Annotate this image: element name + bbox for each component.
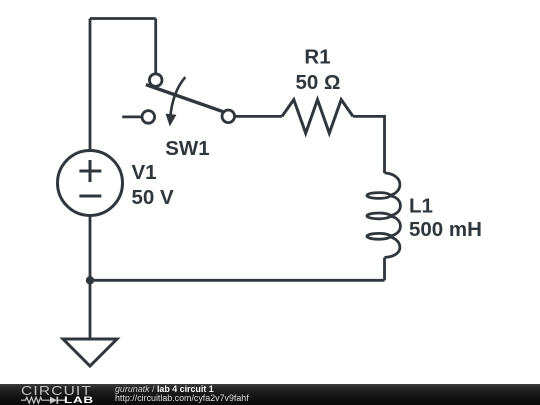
- wire resistor to right corner: [353, 116, 385, 173]
- CircuitLab logo wordmark CIRCUIT: [21, 383, 92, 398]
- wire V1 bottom to junction: [89, 216, 92, 281]
- switch open throw circle: [142, 111, 155, 124]
- wire inductor bottom to bottom rail: [383, 258, 386, 281]
- switch toggle arc: [170, 77, 185, 117]
- footer bar: [0, 384, 540, 405]
- wire switch feed vertical: [154, 19, 157, 74]
- voltage source V1: [58, 151, 123, 216]
- svg-text:SW1: SW1: [165, 137, 209, 160]
- switch open throw stub: [122, 116, 142, 119]
- svg-text:V1: V1: [132, 161, 157, 184]
- switch blade: [146, 85, 226, 113]
- inductor L1: [367, 173, 401, 258]
- ground: [63, 339, 117, 366]
- footer url line: [115, 394, 249, 403]
- CircuitLab logo resistor-diode squiggle: [21, 396, 67, 405]
- switch SW1: [122, 74, 234, 123]
- wire top-left vertical (V1 top to top rail): [89, 19, 92, 151]
- switch toggle arrowhead: [166, 114, 177, 127]
- wire top rail horizontal: [90, 17, 156, 20]
- node junction dot: [86, 276, 94, 284]
- svg-text:50 Ω: 50 Ω: [296, 71, 341, 94]
- CircuitLab logo wordmark LAB: [64, 395, 94, 405]
- wire junction to ground: [89, 280, 92, 338]
- svg-text:50 V: 50 V: [132, 186, 174, 209]
- switch pole terminal circle: [149, 74, 162, 87]
- wire bottom rail horizontal: [90, 279, 385, 282]
- svg-text:L1: L1: [409, 194, 433, 217]
- resistor R1: [282, 100, 353, 134]
- footer credit line: [115, 385, 214, 394]
- svg-text:R1: R1: [304, 46, 330, 69]
- svg-text:500 mH: 500 mH: [409, 218, 482, 241]
- wire switch to resistor: [235, 115, 282, 118]
- switch closed throw circle: [222, 110, 235, 123]
